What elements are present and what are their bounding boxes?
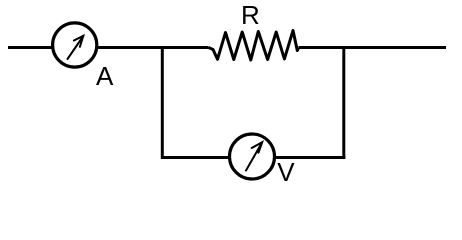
svg-text:R: R (241, 0, 260, 30)
svg-text:V: V (277, 157, 295, 187)
svg-text:A: A (96, 61, 114, 91)
